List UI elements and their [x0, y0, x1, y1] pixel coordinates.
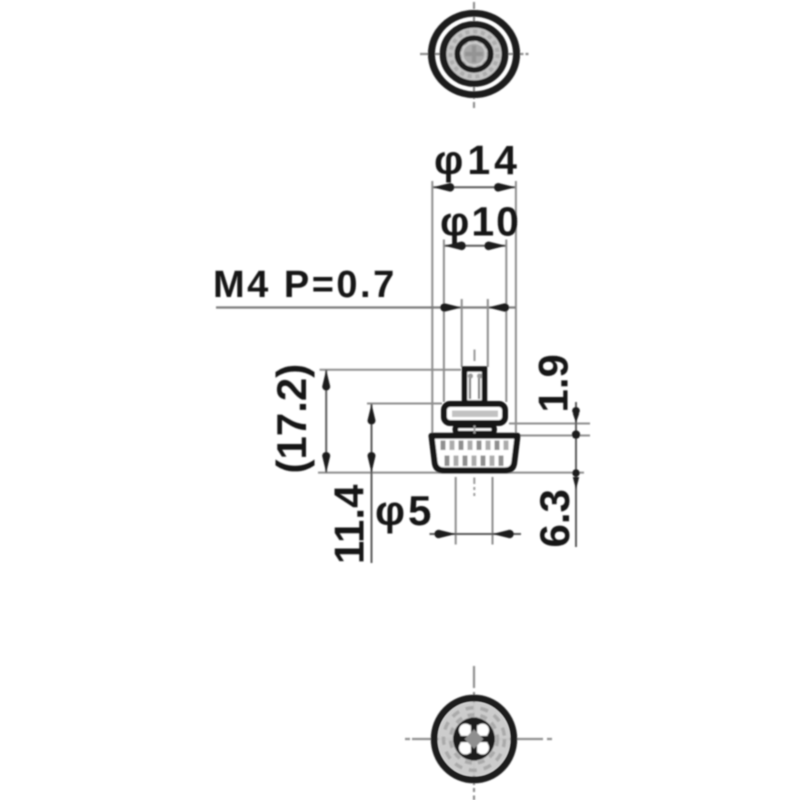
svg-text:(17.2): (17.2)	[268, 364, 315, 474]
svg-text:φ14: φ14	[434, 137, 521, 183]
svg-text:1.9: 1.9	[530, 354, 577, 412]
svg-text:6.3: 6.3	[531, 489, 578, 547]
svg-text:φ5: φ5	[375, 487, 434, 534]
svg-text:11.4: 11.4	[326, 484, 373, 564]
svg-text:φ10: φ10	[440, 199, 521, 245]
svg-text:M4 P=0.7: M4 P=0.7	[213, 264, 397, 306]
